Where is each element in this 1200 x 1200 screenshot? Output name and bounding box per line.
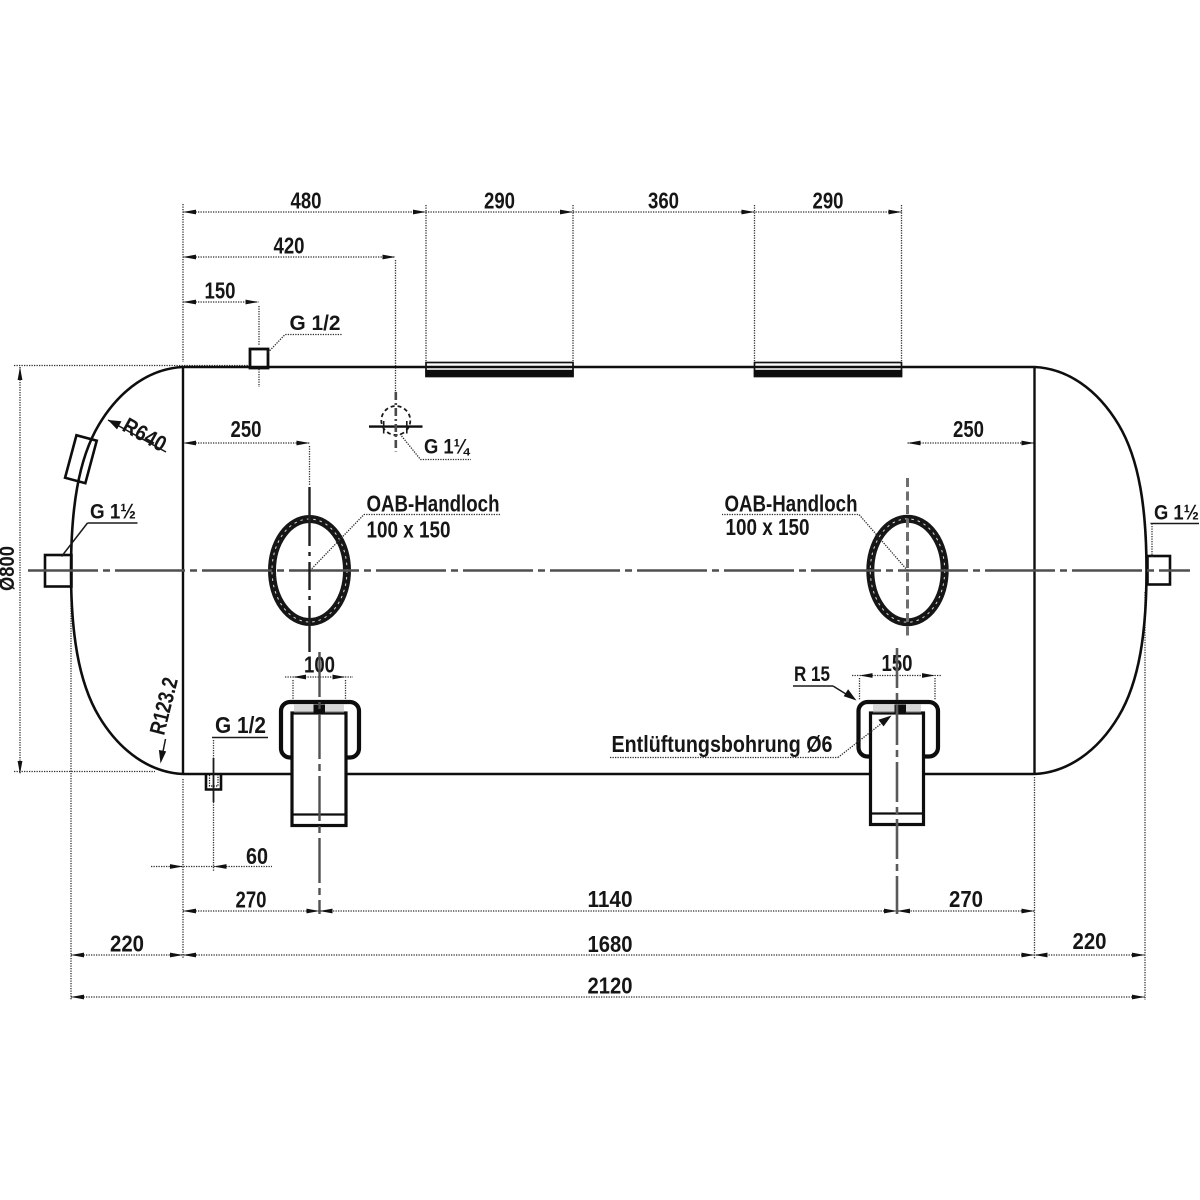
arrows 100 saddle <box>293 675 306 680</box>
right dished head <box>1035 367 1147 774</box>
dimension line top chain 480/290/360/290 <box>183 211 902 213</box>
boss cross horizontal <box>369 425 423 427</box>
extension line top G1/2 fitting centre <box>258 306 260 346</box>
left vent hole mark <box>314 705 326 715</box>
left leg <box>292 713 346 826</box>
svg-text:1680: 1680 <box>588 931 633 957</box>
arrows 150 saddle <box>860 673 873 678</box>
dia800 extension line top <box>14 365 249 367</box>
dimension line 250 left <box>183 442 310 444</box>
extension line right tangent below tank <box>1034 777 1036 959</box>
left handhole vertical centre line <box>308 487 310 518</box>
svg-text:100 x 150: 100 x 150 <box>367 517 451 543</box>
extension line pad1 left <box>425 205 427 361</box>
left saddle bracket <box>281 702 359 758</box>
bottom fitting centre line <box>213 740 215 758</box>
svg-text:G 1¼: G 1¼ <box>424 436 470 459</box>
left dished head <box>71 367 183 774</box>
right handhole and leg centre line <box>906 478 909 636</box>
svg-text:OAB-Handloch: OAB-Handloch <box>367 491 500 517</box>
svg-text:420: 420 <box>274 233 305 259</box>
boss dashed circle <box>381 406 410 435</box>
left tangent seam line <box>182 367 184 774</box>
boss vertical dash-dot <box>394 392 397 452</box>
dia800 extension line bottom <box>14 771 155 773</box>
extension lines 150 saddle <box>859 678 861 700</box>
pad 2 outline <box>755 363 902 377</box>
left saddle gap shading <box>294 705 344 713</box>
svg-text:250: 250 <box>953 416 984 442</box>
svg-text:G 1½: G 1½ <box>90 501 136 524</box>
label OAB-Handloch right <box>722 491 908 571</box>
arrows dia800 <box>18 367 23 380</box>
shell top line <box>183 366 1035 369</box>
top G1/2 fitting square <box>250 349 268 368</box>
svg-text:480: 480 <box>291 188 322 214</box>
label Entlueftungsbohrung <box>610 716 892 758</box>
dia800 dimension line vertical <box>19 367 21 774</box>
svg-text:100 x 150: 100 x 150 <box>726 514 810 540</box>
right handhole ring <box>870 519 944 622</box>
right saddle bracket <box>859 702 939 757</box>
arrows 220 left <box>71 953 84 958</box>
extension line left head apex <box>70 588 72 1000</box>
right tangent seam line <box>1033 367 1035 774</box>
dimension line 2120 <box>71 996 1145 998</box>
arrows 250 left <box>183 441 196 446</box>
label R 15 <box>793 663 857 701</box>
svg-text:1140: 1140 <box>588 886 633 912</box>
dimension line 150 top <box>183 301 259 303</box>
svg-text:OAB-Handloch: OAB-Handloch <box>725 491 858 517</box>
arrows top chain <box>183 210 196 215</box>
left G1-1/2 fitting <box>45 555 72 587</box>
svg-text:2120: 2120 <box>588 973 633 999</box>
pad 2 thick bar <box>754 370 902 377</box>
extension line left handhole top <box>309 446 311 485</box>
extension line left tangent above tank <box>182 204 184 362</box>
svg-text:220: 220 <box>1073 928 1107 954</box>
dimension line 60 <box>151 866 272 868</box>
dimension line 250 right <box>908 442 1035 444</box>
arrows 250 right <box>908 441 921 446</box>
svg-text:Entlüftungsbohrung Ø6: Entlüftungsbohrung Ø6 <box>612 731 833 757</box>
svg-text:360: 360 <box>648 188 679 214</box>
arrows 150 top <box>183 300 196 305</box>
svg-text:G 1/2: G 1/2 <box>290 312 341 335</box>
left leg base band <box>292 813 346 815</box>
label G 1-1/2 right <box>1151 502 1200 558</box>
svg-text:270: 270 <box>949 886 983 912</box>
svg-text:G 1/2: G 1/2 <box>215 712 266 738</box>
arrows 420 <box>183 255 196 260</box>
label G 1/2 top <box>268 312 342 353</box>
extension line right head apex <box>1144 592 1146 1000</box>
extension line below top G1/2 fitting <box>258 369 260 387</box>
svg-text:G 1½: G 1½ <box>1154 502 1199 525</box>
right leg base band <box>871 812 924 814</box>
label R640 <box>108 413 171 457</box>
arrows 1140 <box>320 909 333 914</box>
label R123.2 <box>145 675 183 764</box>
svg-text:250: 250 <box>231 416 262 442</box>
arrows 270 right <box>897 909 910 914</box>
left inclined stub <box>65 435 97 483</box>
right leg <box>871 713 924 825</box>
label OAB-Handloch left <box>310 491 500 571</box>
svg-text:R 15: R 15 <box>794 663 830 686</box>
right G1-1/2 fitting <box>1148 556 1171 585</box>
label G 1/2 bottom <box>212 712 268 738</box>
extension lines 100 saddle <box>292 680 294 700</box>
bottom G1/2 fitting <box>206 775 221 790</box>
main horizontal centre line <box>28 569 1190 572</box>
extension line bottom G1/2 centre <box>213 802 215 871</box>
boss cross ticks <box>383 421 385 434</box>
extension line pad1 right <box>572 205 574 361</box>
label G 1-1/4 <box>400 434 471 460</box>
extension line G1-1/4 boss vertical <box>395 260 397 392</box>
shell bottom line <box>183 773 1035 776</box>
svg-text:Ø800: Ø800 <box>0 546 19 591</box>
arrows 2120 <box>71 995 84 1000</box>
svg-text:60: 60 <box>246 843 268 869</box>
dimension line 150 saddle <box>852 675 942 677</box>
extension line pad2 left <box>754 205 756 361</box>
left handhole ring <box>272 519 347 622</box>
arrows 270 left <box>183 909 196 914</box>
pad 1 thick bar <box>425 370 573 377</box>
left leg centre line <box>318 652 320 914</box>
svg-text:220: 220 <box>110 931 144 957</box>
extension line left tangent below tank <box>182 779 184 959</box>
dimension line 420 <box>183 256 396 258</box>
dimension line 100 saddle <box>285 676 353 678</box>
right vent hole mark <box>895 705 907 715</box>
dimension line 220/1680/220 <box>71 954 1145 956</box>
extension line pad2 right <box>901 205 903 361</box>
arrows 1680 <box>183 953 196 958</box>
pad 1 outline <box>426 363 573 377</box>
right saddle gap shading <box>873 705 921 713</box>
svg-text:290: 290 <box>484 188 515 214</box>
svg-text:290: 290 <box>813 188 844 214</box>
svg-text:150: 150 <box>205 278 236 304</box>
bottom G1/2 fitting inner dotted <box>210 775 219 786</box>
arrows 220 right <box>1035 953 1048 958</box>
label G 1-1/2 left <box>62 501 138 557</box>
svg-text:270: 270 <box>236 887 267 913</box>
arrows 60 outside <box>170 864 183 869</box>
dimension line 270/1140/270 <box>183 910 1035 912</box>
